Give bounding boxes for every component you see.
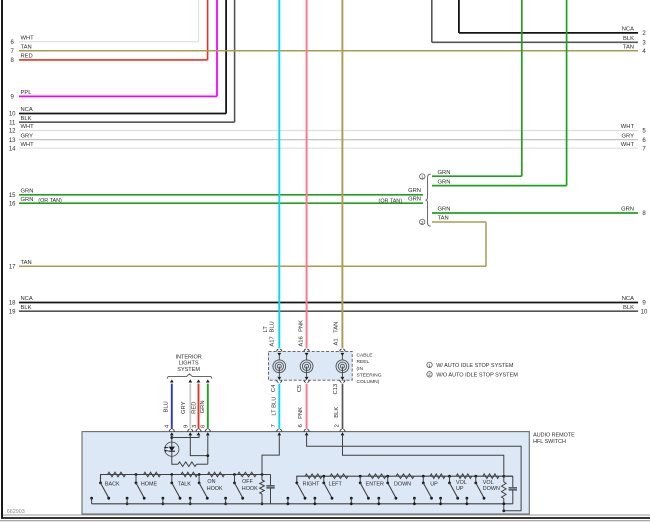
- switch TALK: [162, 473, 182, 505]
- connector reel top pin 2: [304, 349, 309, 360]
- svg-text:W/O AUTO IDLE STOP SYSTEM: W/O AUTO IDLE STOP SYSTEM: [436, 373, 518, 379]
- svg-text:OFF: OFF: [242, 479, 253, 485]
- switch label RIGHT: [303, 481, 320, 487]
- pin number 9 left: [11, 95, 15, 101]
- pin number 15 left: [9, 193, 16, 199]
- wire pin 6 WHT horizontal: [19, 41, 199, 43]
- svg-text:TAN: TAN: [438, 216, 449, 222]
- pin number 3 right: [642, 41, 646, 47]
- switch ON HOOK: [189, 473, 209, 505]
- label NCA right pin 9: [622, 296, 634, 302]
- label BLK below reel: [334, 407, 340, 418]
- wire pin 17 TAN horizontal: [19, 265, 486, 267]
- svg-text:A1: A1: [333, 338, 339, 345]
- wire GRN branch b horizontal: [432, 185, 567, 187]
- svg-text:LT BLU: LT BLU: [272, 397, 278, 416]
- svg-text:WHT: WHT: [621, 142, 635, 148]
- pin number 13 left: [9, 138, 16, 144]
- wire GRY interior lights vertical: [189, 384, 191, 429]
- note 1 legend circle: [427, 362, 432, 368]
- interior lights brace: [167, 374, 212, 379]
- svg-text:7: 7: [271, 424, 277, 427]
- svg-text:UP: UP: [430, 481, 438, 487]
- wire pin 9 PPL vertical riser: [216, 0, 218, 96]
- switch label VOL DOWN: [483, 480, 500, 492]
- wire LED cathode down: [172, 451, 178, 464]
- pin number 7 rotated: [271, 424, 277, 427]
- switch label VOL UP: [456, 480, 467, 492]
- svg-text:TALK: TALK: [178, 481, 191, 487]
- wire pin4 to pin3 jumper: [172, 435, 199, 438]
- label RED pin 8: [21, 54, 33, 60]
- wire RED interior lights vertical: [198, 384, 200, 429]
- arrow to interior lights GRN: [206, 379, 210, 382]
- wire pin 4 stub: [171, 435, 173, 442]
- svg-text:GRN: GRN: [438, 207, 451, 213]
- label C4 reel pin: [271, 384, 277, 392]
- wire rail to detour: [503, 504, 505, 511]
- resistor ladder2 R12: [430, 474, 445, 479]
- label WHT left pin 14: [21, 142, 35, 148]
- svg-text:15: 15: [9, 193, 16, 199]
- svg-text:BLU: BLU: [163, 401, 169, 412]
- resistor ladder2 R11: [396, 474, 414, 479]
- switch label UP: [430, 481, 438, 487]
- svg-text:BLU: BLU: [270, 321, 276, 332]
- resistor ladder1 R4: [181, 472, 198, 477]
- pin number 6 left: [11, 40, 15, 46]
- wire TAN vertical from note 2 branch: [485, 222, 487, 266]
- wire TAN vertical upper: [341, 0, 343, 348]
- switch ENTER: [350, 475, 370, 505]
- label A16 reel pin: [298, 336, 304, 346]
- svg-text:16: 16: [9, 201, 16, 207]
- label A17 reel pin: [270, 336, 276, 346]
- connector switch pin 2: [340, 429, 345, 435]
- label GRN near brace line 15: [408, 188, 421, 194]
- border bottom frame lines: [0, 515, 650, 521]
- junction R15 bottom: [502, 502, 505, 505]
- pin number 16 left: [9, 201, 16, 207]
- svg-text:WHT: WHT: [21, 142, 35, 148]
- svg-text:DOWN: DOWN: [394, 481, 411, 487]
- svg-text:A16: A16: [298, 336, 304, 346]
- svg-text:PNK: PNK: [298, 320, 304, 332]
- switch label ON HOOK: [207, 479, 223, 492]
- wire TAN branch d horizontal: [432, 221, 486, 223]
- svg-text:TAN: TAN: [623, 45, 634, 51]
- resistor ladder2 R10: [368, 474, 386, 479]
- svg-text:BLK: BLK: [21, 305, 32, 311]
- connector switch pin 6: [304, 429, 309, 435]
- resistor ladder2 R8: [305, 474, 322, 479]
- label WHT pin 6: [21, 35, 35, 41]
- label RED rotated: [192, 402, 198, 414]
- label GRN near brace line 16: [408, 196, 421, 202]
- wire pin 3 BLK horizontal: [432, 41, 638, 43]
- wire ladder2 rail: [297, 476, 513, 483]
- svg-text:662903: 662903: [7, 509, 25, 515]
- svg-text:GRN: GRN: [438, 179, 451, 185]
- junction ladder2 end: [502, 475, 505, 478]
- resistor R15 vertical: [502, 476, 507, 504]
- note 2 legend text: [436, 373, 518, 379]
- connector reel bottom pin 2: [304, 366, 309, 382]
- wire pin 6 feed: [307, 435, 521, 511]
- wire bottom rail: [92, 503, 513, 505]
- wire pin 9 stub: [190, 435, 208, 455]
- pin number 8 left: [11, 58, 15, 64]
- svg-text:HOOK: HOOK: [207, 486, 223, 492]
- label C5 reel pin: [297, 385, 303, 392]
- border left frame bar: [1, 0, 3, 518]
- switch label OFF HOOK: [242, 479, 258, 492]
- svg-text:GRN: GRN: [408, 196, 421, 202]
- arrow to interior lights BLU: [170, 379, 174, 382]
- wire pin 2 NCA horizontal: [459, 32, 638, 34]
- label WHT right pin 5: [621, 124, 635, 130]
- wire GRN branch a vertical riser: [521, 0, 523, 176]
- junction pin 4: [170, 436, 173, 439]
- resistor R1 (LED series): [178, 462, 197, 467]
- wire GRN interior lights vertical: [207, 384, 209, 429]
- svg-text:8: 8: [200, 425, 206, 428]
- cable reel coil 3: [336, 360, 349, 373]
- pin number 17 left: [9, 264, 16, 270]
- svg-text:LT: LT: [263, 326, 269, 333]
- brace grouping green branches: [425, 174, 430, 226]
- resistor ladder2 R14: [483, 474, 499, 479]
- svg-text:PNK: PNK: [298, 407, 304, 419]
- switch LEFT: [314, 475, 334, 505]
- svg-text:3: 3: [192, 425, 198, 428]
- junction pin6 detour: [502, 509, 505, 512]
- switch label DOWN: [394, 481, 411, 487]
- svg-text:17: 17: [9, 264, 16, 270]
- pin number 4 rotated: [165, 424, 171, 428]
- svg-text:C13: C13: [333, 384, 339, 395]
- pin number 8 rotated: [200, 425, 206, 428]
- label LT BLU below reel: [272, 397, 278, 416]
- svg-text:COLUMN): COLUMN): [357, 379, 380, 385]
- wire PNK vertical upper: [306, 0, 308, 348]
- pin number 9 right: [642, 301, 646, 307]
- svg-text:REEL: REEL: [357, 359, 370, 365]
- wire PNK vertical lower: [306, 384, 308, 429]
- svg-text:NCA: NCA: [21, 296, 33, 302]
- label TAN right pin 4: [623, 45, 634, 51]
- svg-text:(OR TAN): (OR TAN): [379, 198, 403, 204]
- wire pin 8 stub: [207, 435, 209, 464]
- switch VOL DOWN: [466, 475, 486, 505]
- svg-text:BACK: BACK: [105, 481, 120, 487]
- label BLK left pin 19: [21, 305, 32, 311]
- svg-text:BLK: BLK: [334, 407, 340, 418]
- svg-text:RIGHT: RIGHT: [303, 481, 320, 487]
- svg-text:GRN: GRN: [621, 207, 634, 213]
- svg-text:BLK: BLK: [623, 36, 634, 42]
- label TAN pin 17: [21, 260, 32, 266]
- svg-text:STEERING: STEERING: [357, 373, 382, 379]
- wire pin 10 NCA horizontal: [19, 113, 226, 115]
- svg-text:GRN: GRN: [21, 189, 34, 195]
- wire pin 11 BLK vertical riser: [234, 0, 236, 122]
- label TAN left pin 7: [21, 45, 32, 51]
- resistor ladder1 R2: [108, 472, 126, 477]
- resistor ladder1 R5: [208, 472, 225, 477]
- note marker 1 at brace: [420, 174, 425, 180]
- svg-text:C5: C5: [297, 385, 303, 392]
- svg-text:LIGHTS: LIGHTS: [179, 361, 199, 367]
- svg-text:GRN: GRN: [21, 197, 34, 203]
- svg-text:WHT: WHT: [21, 124, 35, 130]
- label NCA right pin 2: [622, 27, 634, 33]
- label GRN pin 16: [21, 197, 34, 203]
- pin number 4 right: [642, 49, 646, 55]
- svg-text:11: 11: [9, 120, 16, 126]
- switch label HOME: [141, 481, 158, 487]
- svg-text:9: 9: [183, 425, 189, 428]
- label A1 reel pin: [333, 338, 339, 345]
- wire pin 8 RED horizontal: [19, 59, 208, 61]
- wire WHT pin 12 to pin 5 bus: [19, 130, 638, 132]
- connector reel top pin 3: [340, 349, 345, 360]
- connector switch pin 3: [196, 429, 201, 435]
- connector switch pin 8: [205, 429, 210, 435]
- label (OR TAN) pin 16: [38, 198, 62, 204]
- switch label TALK: [178, 481, 191, 487]
- pin number 7 right: [642, 146, 646, 152]
- svg-text:(IN: (IN: [357, 366, 364, 372]
- wire GRN branch b vertical riser: [566, 0, 568, 186]
- label PPL pin 9: [21, 90, 33, 96]
- svg-text:GRN: GRN: [438, 170, 451, 176]
- label BLK pin 11: [21, 116, 32, 122]
- svg-text:6: 6: [298, 424, 304, 427]
- svg-text:GRY: GRY: [181, 401, 187, 414]
- label BLK right pin 3: [623, 36, 634, 42]
- wire pin 2 NCA vertical riser: [458, 0, 460, 33]
- label GRY left pin 13: [21, 133, 34, 139]
- label WHT left pin 12: [21, 124, 35, 130]
- switch label BACK: [105, 481, 120, 487]
- svg-text:NCA: NCA: [21, 107, 33, 113]
- svg-text:BLK: BLK: [21, 116, 32, 122]
- svg-text:A17: A17: [270, 336, 276, 346]
- svg-text:RED: RED: [192, 402, 198, 414]
- svg-text:AUDIO REMOTE: AUDIO REMOTE: [533, 433, 575, 439]
- svg-text:10: 10: [641, 309, 648, 315]
- label BLU rotated: [163, 401, 169, 412]
- switch RIGHT: [287, 482, 307, 506]
- label GRY rotated: [181, 401, 187, 414]
- LED D1: [164, 442, 179, 456]
- connector switch pin 7: [277, 429, 282, 435]
- svg-text:INTERIOR: INTERIOR: [175, 354, 201, 360]
- svg-text:10: 10: [9, 112, 16, 118]
- label NCA pin 10: [21, 107, 33, 113]
- label (OR TAN) near brace: [379, 198, 403, 204]
- connector switch pin 9: [188, 429, 193, 435]
- wire pin 9 PPL horizontal: [19, 95, 217, 97]
- interior lights system caption: [175, 354, 201, 373]
- pin number 7 left: [11, 49, 15, 55]
- label WHT right pin 7: [621, 142, 635, 148]
- label TAN branch d: [438, 216, 449, 222]
- label GRN right pin 8: [621, 207, 634, 213]
- resistor R7 vertical: [260, 475, 265, 504]
- label GRN pin 15: [21, 189, 34, 195]
- resistor ladder2 R13: [456, 474, 472, 479]
- switch HOME: [126, 473, 146, 505]
- svg-text:HOME: HOME: [141, 481, 158, 487]
- svg-text:CABLE: CABLE: [357, 353, 374, 359]
- wire TAN pin 7 to pin 4 bus: [19, 50, 638, 52]
- cable reel box: [269, 351, 353, 380]
- label BLK right pin 10: [623, 305, 634, 311]
- label GRY right pin 6: [622, 133, 635, 139]
- pin number 18 left: [9, 301, 16, 307]
- junction R7 bottom: [261, 502, 264, 505]
- label PNK above reel: [298, 320, 304, 332]
- svg-text:19: 19: [9, 309, 16, 315]
- pin number 3 rotated: [192, 425, 198, 428]
- svg-text:HFL SWITCH: HFL SWITCH: [533, 439, 566, 445]
- svg-text:GRY: GRY: [622, 133, 635, 139]
- svg-text:WHT: WHT: [621, 124, 635, 130]
- wire BLK vertical lower: [342, 384, 344, 429]
- wire GRN branch a horizontal: [432, 175, 522, 177]
- switch VOL UP: [439, 475, 459, 505]
- svg-text:14: 14: [9, 146, 16, 152]
- svg-text:DOWN: DOWN: [483, 486, 500, 492]
- wire pin 6 WHT vertical riser: [198, 0, 200, 42]
- drawing number 662903: [7, 509, 25, 515]
- wire WHT pin 14 to pin 7 bus: [19, 147, 638, 149]
- connector reel top pin 1: [277, 349, 282, 360]
- wire pin 10 NCA vertical riser: [225, 0, 227, 114]
- wire BLK pin 19 to pin 10 bus: [19, 310, 638, 312]
- svg-text:NCA: NCA: [622, 296, 634, 302]
- wire pin 15 GRN horizontal: [19, 194, 423, 196]
- switch label LEFT: [329, 481, 343, 487]
- label PNK below reel: [298, 407, 304, 419]
- svg-text:W/ AUTO IDLE STOP SYSTEM: W/ AUTO IDLE STOP SYSTEM: [436, 363, 514, 369]
- svg-text:BLK: BLK: [623, 305, 634, 311]
- resistor ladder2 R9: [330, 474, 348, 479]
- wire GRY pin 13 to pin 6 bus: [19, 139, 638, 141]
- connector switch pin 4: [169, 429, 174, 435]
- svg-text:HOOK: HOOK: [242, 486, 258, 492]
- wire pin 2 feed: [343, 435, 504, 476]
- svg-text:LEFT: LEFT: [329, 481, 343, 487]
- svg-text:UP: UP: [456, 486, 464, 492]
- note marker 2 at brace: [420, 219, 425, 225]
- pin number 12 left: [9, 129, 16, 135]
- cable reel coil 1: [273, 360, 286, 373]
- arrow to interior lights GRY: [188, 379, 192, 382]
- label BLU (of LT BLU): [270, 321, 276, 332]
- svg-text:TAN: TAN: [21, 260, 32, 266]
- pin number 9 rotated: [183, 425, 189, 428]
- label LT (of LT BLU): [263, 326, 269, 333]
- wire LT BLU vertical lower: [278, 384, 280, 429]
- wire ladder1 rail: [101, 475, 271, 483]
- pin number 5 right: [642, 129, 646, 135]
- resistor ladder1 R6: [238, 472, 257, 477]
- note 2 legend circle: [427, 372, 432, 378]
- junction pin8/pin9 node: [206, 454, 209, 457]
- pin number 14 left: [9, 146, 16, 152]
- switch label ENTER: [366, 481, 384, 487]
- resistor ladder1 R3: [144, 472, 161, 477]
- arrow to interior lights RED: [197, 379, 201, 382]
- cable reel coil 2: [300, 360, 313, 373]
- wire R1 to pin8 node: [197, 463, 208, 465]
- pin number 6 rotated: [298, 424, 304, 427]
- svg-text:GRN: GRN: [408, 188, 421, 194]
- wire NCA pin 18 to pin 9 bus: [19, 302, 638, 304]
- pin number 8 right: [642, 211, 646, 217]
- label GRN branch a: [438, 170, 451, 176]
- wire BLU interior lights vertical: [171, 384, 173, 429]
- capacitor C1: [266, 475, 274, 504]
- label C13 reel pin: [333, 384, 339, 395]
- connector reel bottom pin 1: [277, 366, 282, 382]
- pin number 10 right: [641, 309, 648, 315]
- svg-text:PPL: PPL: [21, 90, 33, 96]
- svg-text:(OR TAN): (OR TAN): [38, 198, 62, 204]
- svg-text:GRN: GRN: [200, 400, 206, 413]
- wire pin 3 BLK vertical riser: [431, 0, 433, 42]
- switch BACK: [90, 482, 110, 504]
- pin number 6 right: [642, 138, 646, 144]
- svg-text:13: 13: [9, 138, 16, 144]
- audio remote HFL switch caption: [533, 433, 575, 445]
- svg-text:ENTER: ENTER: [366, 481, 384, 487]
- wire LT BLU vertical upper: [278, 0, 280, 348]
- pin number 2 right: [642, 31, 646, 37]
- label GRN branch c: [438, 207, 451, 213]
- audio remote HFL switch box: [82, 432, 529, 514]
- label GRN branch b: [438, 179, 451, 185]
- wire pin 11 BLK horizontal: [19, 121, 235, 123]
- pin number 19 left: [9, 309, 16, 315]
- svg-text:SYSTEM: SYSTEM: [177, 367, 200, 373]
- connector reel bottom pin 3: [340, 366, 345, 382]
- wire GRN branch c to pin 8 right: [432, 212, 638, 214]
- svg-text:RED: RED: [21, 54, 33, 60]
- pin number 10 left: [9, 112, 16, 118]
- wire pin 8 RED vertical riser: [207, 0, 209, 60]
- note 1 legend text: [436, 363, 514, 369]
- capacitor C2: [504, 476, 517, 504]
- pin number 11 left: [9, 120, 16, 126]
- label GRN rotated: [200, 400, 206, 413]
- svg-text:ON: ON: [207, 479, 215, 485]
- switch OFF HOOK: [224, 473, 244, 505]
- label NCA left pin 18: [21, 296, 33, 302]
- junction ladder1 end: [261, 473, 264, 476]
- svg-text:C4: C4: [271, 384, 277, 392]
- cable reel caption: [357, 353, 382, 386]
- svg-text:2: 2: [334, 424, 340, 427]
- svg-text:WHT: WHT: [21, 35, 35, 41]
- pin number 2 rotated: [334, 424, 340, 427]
- svg-text:TAN: TAN: [334, 322, 340, 333]
- switch DOWN: [377, 475, 397, 505]
- svg-text:12: 12: [9, 129, 16, 135]
